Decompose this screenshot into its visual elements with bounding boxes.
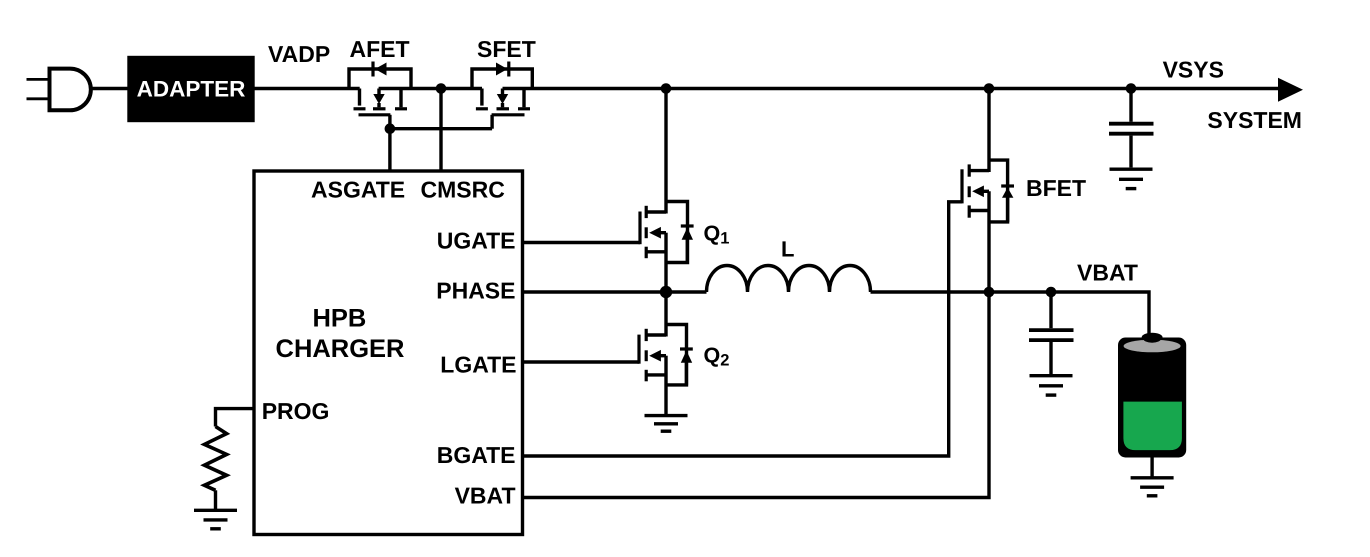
ground battery [1131,478,1174,496]
svg-text:BFET: BFET [1026,175,1086,201]
junction dot phase node [660,286,672,298]
svg-text:LGATE: LGATE [440,352,516,378]
transistor SFET [472,62,532,129]
svg-text:AFET: AFET [350,36,410,62]
transistor Q2 [639,292,693,416]
wire inductor to VBAT rail [871,292,1150,334]
wire CMSRC riser [439,89,442,172]
wire adapter to AFET [253,87,360,90]
wire AFET to SFET (rail) [379,87,482,90]
ground VBAT cap [1030,376,1073,395]
junction dot BFET drain [984,83,995,94]
junction dot gate link [385,123,396,134]
svg-text:VBAT: VBAT [1077,259,1138,285]
capacitor VSYS [1109,89,1154,168]
transistor AFET [349,62,411,129]
ic HPB CHARGER box [254,171,523,535]
adapter box [129,58,253,121]
wire UGATE [523,241,641,244]
svg-text:CMSRC: CMSRC [421,176,505,202]
svg-text:VADP: VADP [268,41,330,67]
svg-text:HPB: HPB [312,305,366,333]
svg-text:PHASE: PHASE [436,278,515,304]
junction dot VBAT cap [1046,287,1057,298]
svg-text:ASGATE: ASGATE [311,176,405,202]
svg-text:ADAPTER: ADAPTER [137,77,246,102]
svg-text:VSYS: VSYS [1163,57,1224,83]
junction dot VSYS cap [1126,83,1137,94]
wire resistor to ground [214,490,217,510]
wire BGATE [523,202,963,456]
wire PHASE [523,290,707,293]
wire battery to ground [1150,457,1153,478]
svg-text:UGATE: UGATE [437,228,516,254]
battery [1118,333,1186,458]
svg-text:SYSTEM: SYSTEM [1207,107,1302,133]
junction dot CMSRC tap [436,83,447,94]
wire VBAT pin [523,292,990,498]
ground Q2 [645,416,688,432]
svg-text:SFET: SFET [477,36,536,62]
svg-text:Q2: Q2 [704,344,730,370]
wire LGATE [523,360,640,363]
wire plug to adapter [91,87,129,90]
wire ASGATE riser [388,129,391,171]
wire SFET to VSYS rail [503,87,1281,90]
svg-text:L: L [781,237,794,262]
capacitor VBAT [1029,292,1074,374]
ground VSYS cap [1110,169,1153,188]
svg-text:VBAT: VBAT [455,483,516,509]
svg-text:Q1: Q1 [704,222,730,248]
junction dot Q1 drain [661,83,672,94]
ac plug [27,69,91,111]
svg-text:CHARGER: CHARGER [276,335,405,363]
inductor L [707,266,871,293]
wire PROG [216,409,255,427]
svg-text:BGATE: BGATE [437,442,516,468]
junction dot BFET source [984,287,995,298]
transistor BFET [962,89,1014,293]
ground resistor [194,510,237,529]
VSYS arrow [1278,78,1303,102]
resistor R PROG [204,427,226,491]
transistor Q1 [640,89,694,293]
wire gate link AFET-SFET [390,127,492,130]
svg-text:PROG: PROG [262,398,330,424]
